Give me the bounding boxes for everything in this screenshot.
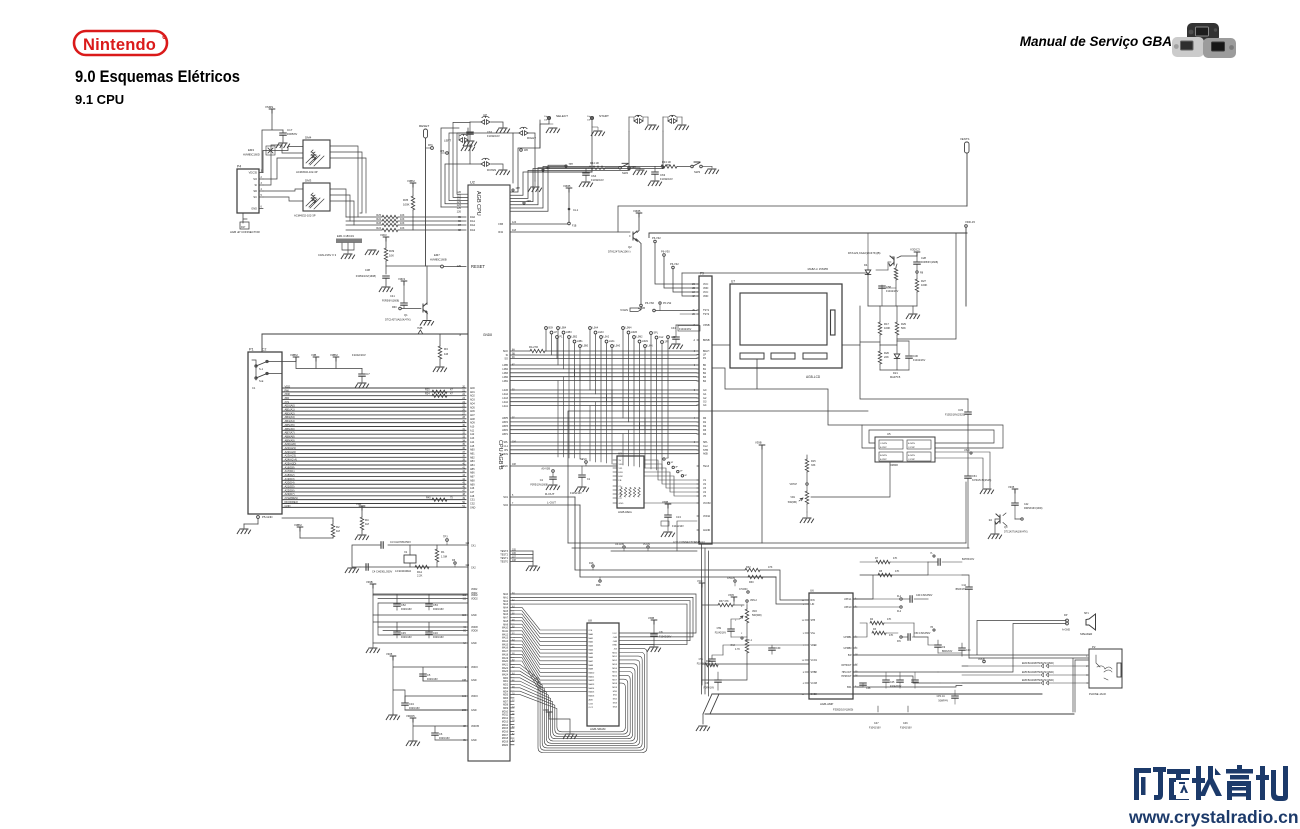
svg-text:V1: V1 — [703, 479, 707, 482]
svg-text:AB7(A7): AB7(A7) — [285, 431, 295, 435]
svg-text:16: 16 — [802, 620, 805, 622]
svg-text:ACM4532-102-3P: ACM4532-102-3P — [294, 214, 316, 218]
svg-text:LEFT: LEFT — [444, 139, 451, 143]
svg-text:5W: 5W — [848, 654, 852, 657]
test pad L0B4 — [557, 327, 560, 330]
svg-text:MA10: MA10 — [589, 671, 595, 674]
svg-text:V3DD5: V3DD5 — [406, 714, 415, 718]
svg-text:IPS: IPS — [504, 449, 508, 452]
svg-text:MA3: MA3 — [589, 645, 594, 648]
svg-text:RESET: RESET — [419, 124, 429, 128]
svg-text:R32: R32 — [498, 231, 503, 234]
svg-text:AD1: AD1 — [470, 391, 475, 394]
svg-text:F1042/16V: F1042/16V — [890, 686, 902, 688]
Nintendo logo — [72, 29, 172, 59]
svg-text:R3: R3 — [873, 628, 877, 631]
svg-text:A22(D6): A22(D6) — [285, 488, 295, 492]
svg-text:10K: 10K — [400, 214, 405, 217]
svg-text:AB6(A6): AB6(A6) — [285, 427, 295, 431]
svg-text:MD16: MD16 — [502, 731, 509, 733]
svg-text:A21(A21): A21(A21) — [285, 446, 296, 450]
output network top: R7 R8 — [853, 575, 928, 599]
svg-text:MD3: MD3 — [612, 664, 617, 666]
svg-text:MD2: MD2 — [612, 660, 617, 662]
svg-text:L0B2: L0B2 — [572, 336, 578, 339]
svg-text:CL1: CL1 — [504, 445, 509, 448]
svg-text:AB2(A2): AB2(A2) — [285, 411, 295, 415]
wires DM outputs right — [330, 146, 366, 217]
svg-text:AB3(A3): AB3(A3) — [285, 415, 295, 419]
button RIGHT — [513, 133, 535, 183]
svg-text:3R: 3R — [463, 726, 466, 728]
rail joining D4 C58 R27 — [868, 305, 917, 307]
pad P6-V32b — [672, 266, 675, 269]
svg-text:C38: C38 — [866, 687, 871, 690]
svg-text:LBP2: LBP2 — [502, 429, 509, 432]
svg-text:TP3: TP3 — [443, 536, 448, 539]
svg-text:AD2: AD2 — [470, 395, 475, 398]
top rail to VENTS — [618, 206, 967, 232]
svg-text:R16: R16 — [589, 562, 594, 565]
svg-text:C54: C54 — [972, 475, 977, 478]
button B — [634, 115, 643, 123]
test pad L0A1 — [605, 340, 608, 343]
svg-text:8: 8 — [694, 351, 696, 353]
svg-text:SO: SO — [253, 177, 257, 181]
svg-text:C63: C63 — [660, 173, 666, 177]
wire to diode D4 rail — [682, 273, 698, 296]
wires P4 to DM networks — [263, 147, 303, 173]
svg-text:C1: C1 — [587, 478, 591, 481]
svg-text:HVM85C160D: HVM85C160D — [243, 153, 260, 157]
svg-text:C50 0.68U/50V: C50 0.68U/50V — [914, 632, 931, 635]
svg-text:47: 47 — [450, 389, 453, 392]
test pad L0A4 — [589, 327, 592, 330]
power pad V305 amp — [731, 597, 737, 601]
svg-text:HPROUT: HPROUT — [841, 675, 852, 678]
svg-text:/CE: /CE — [589, 630, 593, 632]
svg-text:R17: R17 — [884, 322, 889, 326]
button bundle wires into CPU left pins — [441, 206, 468, 208]
test pad SPL — [650, 332, 653, 335]
svg-text:MA7: MA7 — [589, 660, 594, 663]
svg-text:MA23: MA23 — [502, 670, 509, 673]
svg-text:VR2: VR2 — [752, 610, 757, 613]
svg-text:CK1: CK1 — [471, 545, 476, 548]
svg-text:L0B1: L0B1 — [502, 380, 508, 383]
svg-text:A18: A18 — [470, 495, 475, 498]
svg-text:F3052/10V(1608): F3052/10V(1608) — [356, 274, 376, 278]
svg-text:50WF/4V: 50WF/4V — [938, 701, 948, 703]
svg-text:47K: 47K — [895, 570, 900, 573]
svg-text:UPRB0: UPRB0 — [844, 647, 853, 650]
CPU pin 124 wire — [510, 223, 568, 225]
svg-text:DA0: DA0 — [470, 215, 476, 219]
resistor R54 — [895, 267, 897, 268]
svg-text:3470U/6.3V(2S2S): 3470U/6.3V(2S2S) — [972, 480, 992, 482]
svg-text:VR1: VR1 — [790, 496, 795, 499]
svg-text:1M: 1M — [444, 352, 449, 356]
svg-text:C12: C12 — [962, 584, 967, 587]
svg-text:C-PNP: C-PNP — [908, 459, 915, 461]
svg-text:C2+: C2+ — [619, 494, 624, 496]
potentiometer VR2 — [746, 605, 748, 609]
svg-text:R45: R45 — [426, 497, 431, 500]
svg-text:GND: GND — [471, 739, 477, 742]
svg-text:A11: A11 — [470, 429, 475, 432]
capacitor C34 — [402, 703, 408, 705]
svg-text:R37 47K: R37 47K — [719, 600, 729, 603]
svg-text:1: 1 — [735, 620, 737, 622]
svg-text:D21: D21 — [893, 371, 898, 375]
resistor R2 1M — [332, 521, 334, 524]
svg-text:2P: 2P — [666, 458, 669, 460]
svg-text:/CS: /CS — [285, 400, 290, 404]
svg-text:A0B: A0B — [589, 698, 594, 701]
test pad LP — [550, 331, 553, 334]
svg-text:R28: R28 — [376, 222, 381, 225]
U5 frame wires — [862, 425, 1003, 448]
svg-text:/CS2(RES): /CS2(RES) — [285, 496, 298, 500]
svg-text:AGB-AMP: AGB-AMP — [820, 702, 833, 706]
svg-text:P1: P1 — [249, 348, 254, 352]
svg-text:A0-V3B: A0-V3B — [541, 468, 550, 471]
svg-text:MD19: MD19 — [502, 742, 509, 744]
crystalradio watermark — [1120, 760, 1300, 829]
R-OUT L-OUT wires — [510, 496, 575, 498]
capacitor C5 — [420, 674, 426, 676]
headphone sense wires — [969, 658, 1088, 712]
svg-text:4.194304MHz: 4.194304MHz — [395, 569, 412, 573]
svg-text:MA4: MA4 — [589, 648, 594, 651]
svg-text:DTC143TUA(10K/47K): DTC143TUA(10K/47K) — [385, 319, 411, 322]
svg-text:1M: 1M — [365, 522, 370, 526]
svg-text:GND: GND — [471, 614, 477, 617]
svg-text:MA11: MA11 — [502, 630, 509, 633]
svg-text:AD8: AD8 — [470, 418, 475, 421]
long rails mid right — [575, 543, 1095, 548]
svg-text:EN1: EN1 — [619, 472, 624, 474]
svg-text:A15: A15 — [470, 445, 475, 448]
svg-text:UPFL1: UPFL1 — [844, 598, 852, 601]
svg-text:MD6: MD6 — [612, 675, 617, 677]
svg-text:22K: 22K — [884, 355, 889, 359]
svg-text:MD10: MD10 — [502, 711, 509, 713]
capacitor C7 — [361, 369, 363, 375]
svg-text:F0R4/16V: F0R4/16V — [433, 608, 444, 611]
svg-text:GND: GND — [285, 504, 291, 508]
svg-text:17: 17 — [855, 664, 858, 666]
svg-text:L-OUT: L-OUT — [547, 501, 556, 505]
svg-text:V39B: V39B — [755, 441, 762, 445]
svg-text:M12: M12 — [613, 699, 618, 701]
svg-text:AB8: AB8 — [470, 479, 475, 482]
svg-text:VDD: VDD — [285, 384, 291, 388]
svg-text:AB2: AB2 — [470, 456, 475, 459]
capacitor C17 — [282, 130, 284, 133]
capacitor C58 — [881, 285, 883, 288]
svg-text:MD1: MD1 — [612, 656, 617, 658]
svg-text:2D: 2D — [692, 314, 695, 316]
test pad 1P2 — [661, 341, 664, 344]
svg-text:U3: U3 — [618, 452, 622, 456]
svg-text:C62: C62 — [487, 130, 493, 134]
resistor R39 10K — [385, 241, 387, 248]
svg-text:2C: 2C — [692, 284, 695, 286]
svg-text:2.2K: 2.2K — [417, 574, 423, 578]
svg-text:P6-V32: P6-V32 — [652, 236, 661, 240]
svg-text:AB6: AB6 — [470, 472, 475, 475]
svg-text:Q2: Q2 — [628, 245, 632, 249]
amp output wires to jack — [853, 672, 1040, 687]
svg-text:EM3: EM3 — [248, 148, 254, 152]
svg-text:MA21: MA21 — [502, 663, 509, 666]
svg-text:F1042/16V: F1042/16V — [659, 636, 672, 639]
svg-text:R24: R24 — [376, 227, 381, 230]
test pad L0A3 — [594, 331, 597, 334]
svg-text:C64: C64 — [591, 174, 597, 178]
svg-text:MA8: MA8 — [503, 620, 508, 623]
capacitor C54 — [965, 476, 971, 478]
svg-text:DR60R: DR60R — [890, 464, 898, 467]
svg-text:G1: G1 — [703, 393, 707, 396]
resistor R25 47 — [432, 390, 447, 393]
svg-text:AD5: AD5 — [470, 406, 475, 409]
svg-text:C18LJ/16V X 3: C18LJ/16V X 3 — [318, 253, 337, 257]
svg-text:P1: P1 — [560, 336, 564, 339]
svg-text:MA12: MA12 — [589, 679, 595, 682]
svg-text:LP: LP — [554, 331, 557, 334]
svg-text:V3BM: V3BM — [294, 523, 302, 527]
svg-text:AB1: AB1 — [470, 452, 475, 455]
node labels on bundle — [512, 189, 514, 191]
svg-text:F1042/16V: F1042/16V — [679, 328, 692, 331]
svg-text:DM3: DM3 — [305, 179, 312, 183]
svg-text:SELECT: SELECT — [556, 114, 568, 118]
svg-text:NEVC: NEVC — [580, 458, 587, 461]
svg-text:F1032/16V: F1032/16V — [591, 178, 604, 182]
svg-text:L0B4: L0B4 — [561, 327, 567, 330]
svg-text:MA13: MA13 — [502, 637, 509, 640]
svg-text:B60K/16V: B60K/16V — [942, 651, 953, 653]
svg-text:MA5: MA5 — [503, 610, 508, 613]
test pad LMN — [644, 345, 647, 348]
zener D21 — [896, 341, 898, 353]
svg-text:A18(D2): A18(D2) — [285, 473, 295, 477]
svg-text:DOWN: DOWN — [487, 168, 496, 172]
svg-text:C59: C59 — [717, 627, 722, 630]
svg-text:B1: B1 — [703, 368, 707, 371]
Manual de Servico GBA title — [1020, 34, 1172, 49]
svg-text:C2: C2 — [262, 348, 266, 352]
CPU pin 118 wire to Q2 — [510, 231, 630, 233]
svg-text:AB1(A1): AB1(A1) — [285, 408, 295, 412]
svg-text:R8: R8 — [879, 570, 883, 573]
capacitor C39 — [771, 645, 773, 648]
pads R16/R06 — [592, 565, 594, 567]
svg-text:MD9: MD9 — [612, 687, 617, 689]
svg-text:VDD-15: VDD-15 — [965, 220, 975, 224]
svg-text:EM7: EM7 — [434, 253, 440, 257]
power pad V303 — [383, 237, 389, 241]
svg-text:F1032/16V: F1032/16V — [487, 134, 500, 138]
resistor R35 100K — [410, 183, 416, 187]
svg-text:/RD: /RD — [285, 396, 290, 400]
svg-text:U2: U2 — [470, 181, 475, 185]
svg-text:47: 47 — [450, 392, 453, 395]
svg-text:R1: R1 — [703, 421, 707, 424]
svg-text:R06: R06 — [596, 584, 601, 587]
svg-text:47K: 47K — [889, 634, 894, 637]
svg-text:F1042/16V: F1042/16V — [672, 525, 684, 528]
svg-text:U3-CNN: U3-CNN — [615, 543, 624, 546]
svg-text:L0B5: L0B5 — [502, 364, 508, 367]
svg-text:RESET: RESET — [471, 264, 485, 269]
capacitor C3 — [381, 542, 383, 548]
svg-text:V39B: V39B — [662, 501, 668, 504]
switch SW2 — [619, 167, 622, 170]
svg-text:A14: A14 — [470, 441, 475, 444]
resistor R27 100K — [916, 273, 918, 279]
svg-text:VDD35: VDD35 — [471, 725, 480, 728]
svg-text:SCK: SCK — [503, 350, 508, 353]
power pad V3B — [313, 357, 319, 361]
svg-text:47K: 47K — [887, 618, 892, 621]
svg-text:AD9: AD9 — [470, 422, 475, 425]
svg-text:B4T8K/16V: B4T8K/16V — [962, 558, 975, 561]
svg-text:2: 2 — [741, 633, 743, 635]
address fan CPU to SRAM left — [514, 607, 587, 630]
svg-text:GND: GND — [471, 642, 477, 645]
svg-text:US-0: US-0 — [964, 449, 970, 452]
resistor R22 10K — [346, 220, 382, 222]
wire LCD frame bottom — [712, 345, 862, 425]
svg-text:AB5(A5): AB5(A5) — [285, 423, 295, 427]
svg-text:AB9(A9): AB9(A9) — [285, 438, 295, 442]
svg-text:SI: SI — [255, 183, 258, 187]
resistor R15 33K — [806, 455, 808, 459]
LCD connector P9 — [699, 276, 712, 544]
svg-text:SPL: SPL — [503, 441, 508, 444]
svg-text:TST2: TST2 — [703, 313, 710, 316]
svg-text:GND: GND — [612, 645, 617, 647]
power pad VSMS — [269, 109, 275, 113]
svg-text:VREF: VREF — [811, 644, 818, 647]
svg-text:B3: B3 — [703, 376, 707, 379]
svg-text:F0R4/16V: F0R4/16V — [401, 608, 412, 611]
svg-text:D4: D4 — [864, 263, 868, 267]
wire group SPL — [510, 441, 697, 443]
svg-text:ACM4532-102-3P: ACM4532-102-3P — [296, 170, 318, 174]
svg-text:VSMS: VSMS — [265, 105, 273, 109]
svg-text:VCC: VCC — [612, 633, 617, 635]
svg-text:MD0: MD0 — [612, 652, 617, 654]
svg-text:125: 125 — [457, 264, 462, 268]
svg-text:VDD2: VDD2 — [471, 598, 478, 601]
svg-text:CS2: CS2 — [470, 503, 475, 506]
svg-text:DTA124TUA(10K/-): DTA124TUA(10K/-) — [608, 250, 631, 254]
svg-text:CL2: CL2 — [659, 336, 664, 339]
pad P6-VS2 — [659, 302, 661, 304]
test pad L0A0 — [611, 345, 614, 348]
svg-text:V3DB: V3DB — [563, 184, 570, 188]
resistor R17 100K — [879, 306, 881, 321]
svg-text:MA24: MA24 — [502, 674, 509, 677]
svg-text:2PH: 2PH — [527, 201, 532, 203]
svg-text:F0R4/16V: F0R4/16V — [427, 678, 438, 681]
svg-text:MA14: MA14 — [502, 640, 509, 643]
svg-text:B0NB: B0NB — [703, 339, 710, 342]
svg-text:A21(D5): A21(D5) — [285, 485, 295, 489]
svg-text:AGB CPU: AGB CPU — [475, 191, 481, 216]
svg-text:R15: R15 — [811, 460, 816, 463]
svg-text:L0A1: L0A1 — [609, 340, 615, 343]
LED cable down from P9 to analog bus — [702, 544, 709, 696]
resistor R45 — [432, 498, 447, 501]
power pad V39F — [546, 712, 552, 716]
junction CL1 — [568, 208, 571, 211]
svg-text:MD13: MD13 — [502, 721, 509, 723]
svg-text:SPEAKER: SPEAKER — [1080, 632, 1092, 636]
svg-text:R3: R3 — [703, 429, 707, 432]
svg-text:A-GND: A-GND — [1062, 629, 1070, 632]
test pad L0B2 — [568, 336, 571, 339]
svg-text:V39B: V39B — [366, 580, 373, 584]
svg-text:V2: V2 — [703, 483, 707, 486]
resistor R24 10K — [346, 229, 382, 231]
svg-text:DP: DP — [1064, 614, 1068, 617]
svg-text:MA475 B: MA475 B — [890, 376, 901, 379]
svg-text:DA1: DA1 — [470, 219, 476, 223]
svg-text:3: 3 — [694, 442, 696, 444]
power pad V3DD5 — [410, 718, 416, 722]
svg-text:OPHOUT: OPHOUT — [841, 664, 852, 667]
data bus loop around SRAM — [514, 648, 647, 752]
svg-text:CL2: CL2 — [703, 445, 708, 448]
test pad B0X — [545, 327, 548, 330]
svg-text:R24: R24 — [425, 392, 430, 395]
svg-text:MD8: MD8 — [612, 683, 617, 685]
pad START — [590, 116, 593, 119]
svg-text:126: 126 — [457, 209, 462, 213]
P4 shield stub — [243, 213, 247, 223]
svg-text:AB4: AB4 — [470, 464, 475, 467]
rail from LED area to right — [568, 543, 969, 548]
svg-text:MD0: MD0 — [503, 678, 509, 680]
svg-text:AD4: AD4 — [470, 402, 475, 405]
power pad V39B decoupling — [370, 584, 376, 588]
svg-text:P2: P2 — [703, 357, 707, 360]
svg-text:R27: R27 — [921, 279, 926, 283]
svg-text:VDD3: VDD3 — [471, 695, 478, 698]
svg-text:114: 114 — [465, 565, 469, 567]
power pad V3BM — [293, 357, 299, 361]
svg-text:L0A4: L0A4 — [502, 393, 508, 396]
test pad L0M1 — [638, 340, 641, 343]
svg-text:DM4: DM4 — [305, 136, 312, 140]
svg-text:4.7K: 4.7K — [735, 648, 740, 651]
svg-text:V3BM: V3BM — [407, 179, 415, 183]
svg-text:U8: U8 — [588, 619, 592, 623]
switch row R44 SW2 — [566, 167, 589, 169]
svg-text:SPL: SPL — [654, 332, 659, 335]
svg-text:DA3: DA3 — [470, 228, 476, 232]
svg-text:F3B: F3B — [498, 223, 503, 226]
button A — [668, 115, 677, 123]
capacitor C63 — [654, 167, 656, 173]
svg-text:1PH: 1PH — [516, 188, 521, 190]
capacitor C42 — [1012, 503, 1018, 505]
